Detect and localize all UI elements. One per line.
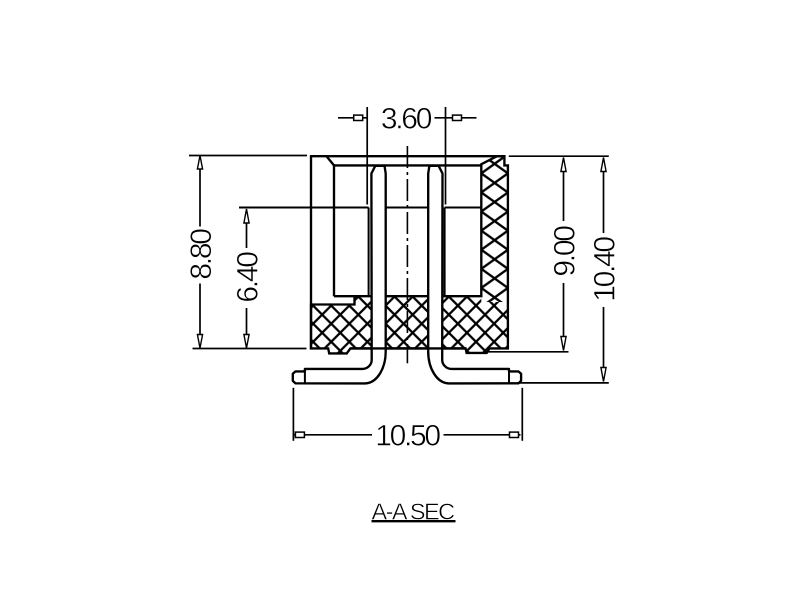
housing inner left wall [333,165,335,296]
dim 3.60 left extension line [366,107,368,205]
dim 8.80/6.40 bottom extension line [193,348,307,350]
svg-text:9.00: 9.00 [549,226,582,277]
right wall hatch fill [481,156,508,302]
housing top edge [310,155,504,157]
dim 9.00 bottom arrow [561,337,566,351]
svg-text:6.40: 6.40 [232,252,265,303]
svg-text:10.50: 10.50 [375,420,440,453]
dim 8.80 top extension line [189,155,307,157]
center line [406,146,408,363]
dim 3.60 left arrow [354,115,363,120]
housing outer left wall [310,155,312,349]
pin channel left wall [368,208,370,296]
dim 8.80 dimension line [199,169,201,335]
hatched insert body outline (right wall + bottom block) [311,156,508,353]
cavity ledge line [239,207,481,209]
dim 10.40 top arrow [601,158,606,172]
dim 8.80 bottom arrow [197,335,202,349]
svg-text:3.60: 3.60 [381,103,432,136]
svg-text:10.40: 10.40 [589,237,622,302]
dim 6.40 bottom arrow [244,335,249,349]
pin 1 leg tip joint [304,369,306,383]
dim 10.50 left extension line [292,388,294,441]
dim 10.50 dimension line [293,434,520,436]
pin channel right wall [444,208,446,296]
dim 3.60 right extension line [445,107,447,205]
dim 8.80 top arrow [197,156,202,170]
housing bottom edge over pins [350,347,465,349]
dim 3.60 dimension line [338,117,477,119]
dim 6.40 dimension line [246,223,248,335]
dim 10.50 right arrow [510,432,519,437]
dim 10.50 left arrow [295,432,304,437]
dim 9.00 top arrow [561,158,566,172]
dim 9.00/10.40 top extension line [509,155,609,157]
pin 2 with gull-wing leg [428,166,521,384]
section title underline [372,520,456,522]
dim 10.40 bottom arrow [601,368,606,382]
dim 9.00 bottom extension line [488,351,569,353]
housing inner ceiling [334,164,481,166]
dim 10.40 bottom extension line [518,382,609,384]
pin 1 with gull-wing leg [293,166,386,384]
dim 10.50 right extension line [521,388,523,441]
dim 3.60 right arrow [453,115,462,120]
housing top-left inner chamfer [327,156,335,165]
dim 6.40 top arrow [244,209,249,223]
pin 2 leg tip joint [508,369,510,383]
cavity floor line [334,295,355,297]
svg-text:8.80: 8.80 [185,229,218,280]
dim 10.40 dimension line [603,172,605,368]
bottom block hatch fill [311,296,508,353]
dim 9.00 dimension line [563,172,565,337]
